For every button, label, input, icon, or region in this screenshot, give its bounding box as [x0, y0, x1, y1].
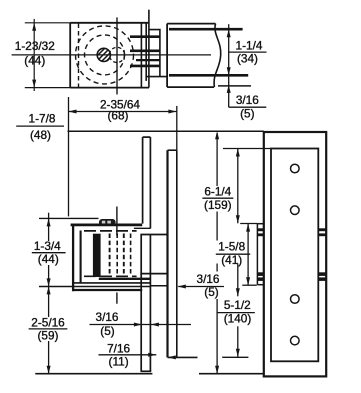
- dim 1-1/4 / 3/16 top right: [229, 24, 267, 107]
- dim 6-1/4 vertical: [202, 133, 233, 374]
- dimension arrowheads: [32, 23, 250, 374]
- long reference line to right plate: [68, 130, 264, 132]
- svg-text:(5): (5): [240, 106, 254, 120]
- bracket inner: [80, 231, 82, 284]
- holes: [291, 164, 300, 345]
- svg-text:1-1/4: 1-1/4: [236, 38, 263, 52]
- top view dashed circle small: [109, 47, 124, 62]
- knuckle cap: [99, 219, 116, 226]
- svg-text:1-23/32: 1-23/32: [15, 39, 55, 53]
- left mounting strip: [257, 224, 263, 285]
- svg-text:(48): (48): [30, 128, 51, 142]
- jamb stop bar (tall): [168, 150, 198, 357]
- screw lines thick: [130, 37, 160, 66]
- svg-text:(59): (59): [38, 329, 59, 343]
- dim 1-5/8 vertical (x=248.1): [247, 224, 249, 286]
- dim lines bottom-left: [90, 325, 192, 355]
- dashed hidden rows: [84, 230, 137, 232]
- svg-text:(140): (140): [224, 311, 252, 325]
- svg-text:(41): (41): [221, 253, 242, 267]
- top view body rect: [70, 23, 149, 88]
- right view outer rect: [264, 132, 326, 376]
- svg-text:1-7/8: 1-7/8: [29, 111, 56, 125]
- inner bottom thin long: [39, 286, 151, 288]
- pivot pin hatched: [93, 43, 118, 72]
- bracket outer: [72, 224, 74, 292]
- right view ext lines: [222, 149, 271, 358]
- svg-text:7/16: 7/16: [107, 342, 130, 356]
- front view: hinge ext line: [39, 217, 99, 219]
- svg-text:(11): (11): [109, 355, 129, 369]
- top view jamb strip: [146, 10, 149, 88]
- svg-text:3/16: 3/16: [197, 272, 220, 286]
- leaf bottom thick: [99, 278, 151, 280]
- svg-text:3/16: 3/16: [236, 93, 259, 107]
- svg-text:(68): (68): [108, 108, 129, 122]
- svg-text:1-3/4: 1-3/4: [34, 239, 61, 253]
- right view inner rect: [271, 149, 318, 362]
- front view centerline: [116, 207, 118, 304]
- step line right of knuckle: [134, 227, 151, 229]
- dim 1-7/8-chain vertical (x=237.8): [216, 149, 255, 357]
- door bar (tall, center): [141, 137, 152, 371]
- svg-text:1-5/8: 1-5/8: [218, 240, 245, 254]
- svg-text:(5): (5): [204, 285, 218, 299]
- dim 1-7/8 bar: [16, 125, 64, 127]
- strike box rect: [140, 235, 167, 274]
- svg-text:3/16: 3/16: [96, 310, 119, 324]
- svg-text:(159): (159): [204, 198, 232, 212]
- between-bars line: [151, 285, 168, 287]
- break curve: [214, 24, 221, 88]
- top view vertical centerline: [116, 17, 118, 94]
- svg-text:6-1/4: 6-1/4: [204, 184, 231, 198]
- inner bracket bottom: [73, 282, 151, 284]
- dim 1-23/32 left: [25, 19, 70, 91]
- top view hidden edge dashed: [78, 24, 80, 88]
- top view dashed circle mid: [85, 35, 125, 75]
- leaf top line: [71, 224, 143, 227]
- horizontal centerline: [12, 54, 211, 56]
- svg-text:2-5/16: 2-5/16: [31, 316, 65, 330]
- top view small block: [146, 30, 167, 77]
- dim 2-35/64: [69, 97, 177, 216]
- svg-text:(34): (34): [237, 52, 258, 66]
- side view strike plate (top right): [167, 24, 251, 88]
- top view dashed circle large: [76, 26, 134, 84]
- screw hidden lines: [110, 234, 131, 276]
- black bar (hinge leaf section): [93, 234, 101, 277]
- long bottom reference line: [35, 373, 263, 375]
- svg-text:(44): (44): [38, 252, 59, 266]
- svg-text:(44): (44): [24, 54, 45, 68]
- svg-text:5-1/2: 5-1/2: [224, 298, 251, 312]
- middle 3/16 leader: [178, 286, 224, 288]
- dim 1-3/4 and 2-5/16 vertical: [29, 213, 68, 374]
- svg-text:(5): (5): [100, 324, 114, 338]
